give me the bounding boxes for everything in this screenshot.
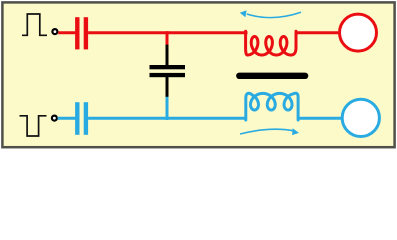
wire (black lead out of coupling capacitor): [166, 77, 169, 97]
induced-current arrow (bottom, pointing right): [240, 128, 299, 135]
input terminal node (bottom): [52, 116, 57, 121]
ferrite core bar: [236, 73, 308, 79]
input terminal node (top): [52, 29, 57, 34]
coupling arrow (top, pointing left): [240, 10, 301, 17]
wire: [58, 117, 76, 120]
capacitor C2 (cyan, series): [75, 102, 88, 135]
wire (junction drop to coupling capacitor): [166, 31, 169, 45]
inductor L1 (red coil): [246, 31, 296, 55]
pulse source symbol (negative pulse): [20, 116, 47, 136]
wire: [88, 117, 246, 120]
load bulb (bottom, cyan circle): [342, 99, 379, 136]
wire (black lead into coupling capacitor): [166, 45, 169, 66]
wire: [88, 31, 247, 34]
panel background: [2, 2, 394, 147]
wire: [298, 117, 343, 120]
capacitor C3 (coupling, black): [150, 65, 186, 77]
inductor L2 (cyan coil): [246, 93, 298, 120]
wire: [296, 31, 340, 34]
wire (cyan drop to bottom line): [166, 97, 169, 120]
pulse source symbol (positive pulse): [22, 14, 47, 35]
wire: [58, 31, 75, 34]
load bulb (top, red circle): [340, 14, 377, 51]
capacitor C1 (red, series): [75, 17, 88, 49]
